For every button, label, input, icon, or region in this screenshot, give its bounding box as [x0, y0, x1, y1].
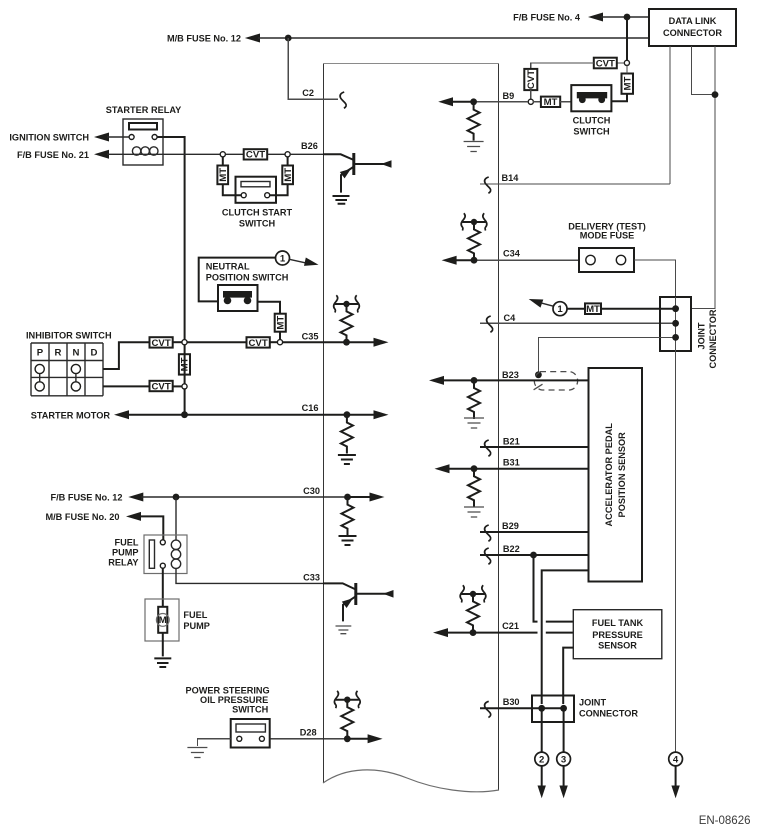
node C21 pull-up junction: [470, 629, 477, 636]
label C16: [302, 403, 319, 413]
ground C16 pull-down: [338, 455, 356, 464]
ground fuel pump: [154, 658, 171, 667]
resistor C35 pull-up: [341, 304, 353, 342]
wire marker 3 exit arrow: [559, 766, 567, 798]
inhibitor switch S4 grid: [31, 343, 103, 396]
label FUEL PUMP RELAY: [108, 537, 139, 567]
svg-text:4: 4: [673, 754, 679, 765]
svg-text:STARTER RELAY: STARTER RELAY: [106, 105, 182, 115]
joint connector J2 (bottom): [532, 696, 574, 723]
arrow from marker 1 to ECM: [289, 258, 318, 266]
wire F/B FUSE No.12 to C30: [128, 493, 323, 502]
wire feed line pin to second CVT tag: [187, 341, 246, 343]
label B29: [502, 521, 519, 531]
label F/B FUSE No. 12: [51, 493, 123, 503]
svg-text:M/B FUSE No. 12: M/B FUSE No. 12: [167, 34, 241, 44]
ground C30 pull-down: [339, 536, 357, 545]
fuel tank pressure sensor U3: [573, 610, 662, 659]
resistor B31 pull-down: [468, 469, 480, 507]
wire C30 branch down to relay coil: [175, 497, 177, 540]
label NEUTRAL POSITION SWITCH: [206, 261, 289, 282]
connector tag MT (NPS): [275, 314, 287, 332]
clutch start switch S2: [236, 177, 277, 203]
svg-text:CVT: CVT: [152, 338, 171, 349]
svg-text:F/B FUSE No. 4: F/B FUSE No. 4: [513, 13, 581, 23]
wire break squiggle at B14: [485, 177, 491, 193]
svg-text:CLUTCH: CLUTCH: [573, 116, 611, 126]
wire relay coil to B26 chain: [163, 153, 220, 155]
svg-text:M/B FUSE No. 20: M/B FUSE No. 20: [45, 512, 119, 522]
svg-text:CONNECTOR: CONNECTOR: [579, 709, 638, 719]
pin open circle left of CVT tag on B26 wire: [220, 152, 225, 157]
resistor D28 pull-up: [341, 700, 353, 738]
wire clutch switch right side up through MT: [611, 94, 627, 102]
wire fuse to right joint connector: [634, 260, 676, 305]
pin open circle right of CVT tag on B26 wire: [267, 152, 290, 157]
wire break squiggle at B22: [485, 548, 491, 564]
clutch switch S1: [571, 85, 611, 111]
label EN-08626: [699, 815, 751, 827]
wire relay contact to vertical feed line: [157, 137, 185, 415]
ground B26 transistor: [333, 196, 350, 204]
wire B29 to APS: [480, 531, 589, 533]
connector tag CVT (C35 line, left): [150, 337, 173, 349]
label B30: [503, 697, 520, 707]
svg-text:STARTER MOTOR: STARTER MOTOR: [31, 411, 111, 421]
svg-text:PUMP: PUMP: [183, 621, 210, 631]
label B23: [502, 370, 519, 380]
svg-text:1: 1: [280, 253, 286, 264]
svg-text:B23: B23: [502, 370, 519, 380]
pin open circle on C35 wire: [277, 340, 282, 345]
label JOINT CONNECTOR (bottom): [579, 698, 638, 719]
label M/B FUSE No. 12: [167, 34, 241, 44]
wire junction down to C2 pin: [288, 38, 338, 99]
wire break squiggle at B29: [485, 525, 491, 541]
wire break squiggle at B21: [485, 440, 491, 456]
resistor C30 pull-down: [342, 498, 354, 536]
fuel pump M1: [145, 599, 179, 641]
svg-text:EN-08626: EN-08626: [699, 815, 751, 827]
fuel pump relay K2: [144, 535, 187, 574]
wire marker 4 exit arrow: [671, 766, 679, 798]
connector tag CVT (horizontal, top): [594, 58, 624, 70]
wire relay coil to C33: [176, 569, 323, 584]
node B9 pull-down junction: [470, 98, 477, 105]
wire vertical CVT tag down to B9 pin circle: [530, 90, 532, 99]
label B14: [502, 173, 520, 183]
svg-text:MT: MT: [180, 357, 191, 371]
svg-text:C16: C16: [302, 403, 319, 413]
label D28: [300, 728, 317, 738]
label C21: [502, 621, 519, 631]
svg-text:CVT: CVT: [152, 381, 171, 392]
connector tag CVT (vertical): [524, 69, 537, 90]
svg-text:B30: B30: [503, 697, 520, 707]
node C16 pull-down junction: [344, 411, 351, 418]
wire DLC pin3 down to right joint connector: [691, 46, 715, 309]
svg-text:R: R: [55, 348, 62, 359]
ECM main box (bus) top edge: [323, 63, 499, 65]
neutral position switch S3: [218, 285, 258, 311]
wire C21 terminator arrow and to FTPS: [433, 628, 573, 637]
resistor C34 pull-up: [468, 222, 480, 260]
wire marker 2 exit arrow: [538, 766, 546, 798]
wire B22 to APS: [480, 554, 589, 556]
wire MT tag up to CVT circle: [626, 66, 628, 74]
svg-text:3: 3: [561, 754, 566, 765]
svg-text:NEUTRAL: NEUTRAL: [206, 261, 250, 271]
svg-text:FUEL: FUEL: [115, 537, 139, 547]
label STARTER RELAY: [106, 105, 182, 115]
continuation marker circle 1 (NPS): [276, 251, 290, 265]
svg-text:B21: B21: [503, 436, 520, 446]
label B9: [503, 91, 515, 101]
svg-text:MT: MT: [218, 168, 229, 182]
svg-text:C33: C33: [303, 573, 320, 583]
data link connector U1: [649, 9, 736, 46]
ground PS switch: [187, 748, 207, 758]
connector tag CVT (row3): [150, 381, 173, 393]
label B26: [301, 141, 318, 151]
resistor C21 pull-up: [467, 594, 479, 632]
wire NPS pin2 down through MT tag to C35: [258, 302, 281, 314]
svg-text:POSITION SWITCH: POSITION SWITCH: [206, 272, 289, 282]
label INHIBITOR SWITCH: [26, 330, 112, 340]
wire M/B FUSE No.12 to DATA LINK CONNECTOR: [245, 34, 649, 43]
wire B21 to APS: [480, 446, 589, 448]
shield dashed loop around B23 wire: [534, 372, 578, 390]
wire APS lower pin to bottom joint connector: [542, 570, 589, 704]
node B22 branch junction: [530, 552, 537, 559]
wire break squiggle at B30: [485, 701, 491, 717]
svg-text:D: D: [91, 348, 98, 359]
ground B31 pull-down: [464, 507, 484, 517]
ground B23 pull-down: [464, 418, 484, 428]
node C30 branch to fuel pump relay: [173, 494, 180, 501]
svg-text:C21: C21: [502, 621, 519, 631]
node B23 pull-down junction: [471, 377, 478, 384]
label M/B FUSE No. 20: [45, 512, 119, 522]
wire starter motor C16: [114, 410, 347, 419]
label C35: [302, 332, 319, 342]
svg-text:C30: C30: [303, 486, 320, 496]
node joint pins: [672, 305, 679, 340]
wire second CVT tag to pin circle: [270, 341, 278, 343]
wire through joint connector down to marker 4: [675, 297, 677, 752]
wire joint pin to marker 2: [541, 708, 543, 752]
wire B22 branch down to fuel tank pressure sensor: [534, 555, 574, 622]
continuation marker circle 2: [535, 752, 549, 766]
wire B14 to DLC pin1: [480, 183, 670, 185]
wire B23 terminator arrow and to APS: [429, 376, 589, 385]
accelerator pedal position sensor U2: [589, 368, 643, 582]
svg-text:CVT: CVT: [249, 338, 268, 349]
label B31: [503, 457, 520, 467]
wire NPS pin1 to continuation marker 1: [199, 258, 276, 302]
svg-text:MT: MT: [544, 97, 558, 108]
wire F/B FUSE No.4 to DATA LINK CONNECTOR: [588, 13, 649, 22]
connector tag MT left (clutch start): [217, 157, 241, 195]
node D28 pull-up junction: [344, 735, 351, 742]
wire PS switch to ground: [197, 739, 230, 746]
transistor Q1 at B26: [323, 153, 392, 193]
svg-text:RELAY: RELAY: [108, 557, 138, 567]
wire B9 from ECM to circle: [499, 101, 528, 103]
svg-text:B14: B14: [502, 173, 520, 183]
connector tag MT (C4 line): [567, 303, 674, 315]
svg-text:B26: B26: [301, 141, 318, 151]
svg-text:DATA LINK: DATA LINK: [669, 16, 717, 26]
ground B9 pull-down: [464, 142, 484, 152]
label POWER STEERING OIL PRESSURE SWITCH: [185, 686, 269, 715]
wire B30 to bottom joint connector: [480, 707, 564, 709]
wire ignition switch arrow to relay contact: [94, 133, 129, 142]
svg-text:MT: MT: [586, 304, 600, 315]
pin open circle on feed line (row3): [182, 384, 187, 389]
svg-text:CONNECTOR: CONNECTOR: [663, 28, 722, 38]
node C34 pull-up junction: [471, 257, 478, 264]
svg-text:B29: B29: [502, 521, 519, 531]
node B31 pull-down junction: [471, 465, 478, 472]
svg-text:SWITCH: SWITCH: [239, 219, 276, 229]
wire break squiggle at C2: [340, 92, 346, 108]
svg-text:MT: MT: [622, 77, 633, 91]
svg-text:PUMP: PUMP: [112, 547, 139, 557]
svg-text:P: P: [37, 348, 44, 359]
wire CVT tag to feed line pin: [173, 341, 182, 343]
connector tag CVT (C35 line, right): [247, 337, 270, 349]
wire C34 terminator arrow: [442, 256, 499, 265]
label C2: [302, 88, 314, 98]
joint connector J1 (right): [660, 297, 691, 351]
resistor B23 pull-down: [468, 381, 480, 419]
ECM main box (bus) left edge: [323, 64, 325, 783]
svg-text:FUEL TANK: FUEL TANK: [592, 618, 644, 628]
wire C34 to delivery mode fuse: [499, 259, 579, 261]
wire row3 CVT to feed line pin: [173, 385, 182, 387]
wire joint pin to marker 3: [563, 708, 565, 752]
wire F/B FUSE No.21 arrow to relay coil: [94, 150, 123, 159]
svg-text:PRESSURE: PRESSURE: [592, 630, 643, 640]
wire inhibitor row3 to CVT tag: [103, 385, 149, 387]
wire C4 to right joint connector: [480, 322, 674, 324]
label C4: [504, 313, 517, 323]
delivery (test) mode fuse F1: [579, 248, 634, 272]
label B22: [503, 544, 520, 554]
label CLUTCH SWITCH: [573, 116, 611, 137]
svg-text:JOINT: JOINT: [697, 322, 707, 349]
pin open circle on B9 wire: [528, 99, 533, 104]
svg-text:CLUTCH START: CLUTCH START: [222, 208, 293, 218]
node feed line to C16: [181, 411, 188, 418]
svg-text:C35: C35: [302, 332, 319, 342]
shield node above D28: [334, 691, 360, 708]
svg-text:SENSOR: SENSOR: [598, 641, 637, 651]
wire fuel pump to ground: [162, 633, 164, 657]
wire DLC pin2 down joining pin3 line: [692, 46, 716, 95]
wire B9 inside ECM with terminator arrow: [438, 97, 499, 106]
wire C30 inside ECM with terminator arrow: [323, 493, 385, 502]
wire inhibitor row2 to CVT tag (C35 line): [103, 342, 149, 369]
svg-text:MODE FUSE: MODE FUSE: [580, 230, 635, 240]
svg-text:IGNITION SWITCH: IGNITION SWITCH: [9, 133, 89, 143]
label B21: [503, 436, 520, 446]
wire B31 terminator arrow and to APS: [435, 464, 589, 473]
wire DLC pin1 down to B14 elbow: [669, 46, 671, 184]
connector tag MT (feed line): [179, 354, 191, 374]
wire CVT pull-up from F/B FUSE No.4: [626, 17, 628, 60]
label CLUTCH START SWITCH: [222, 208, 293, 229]
svg-text:2: 2: [539, 754, 544, 765]
svg-text:C2: C2: [302, 88, 314, 98]
connector tag MT (horizontal) on B9 wire: [533, 97, 571, 109]
ECM main box (bus) right edge: [498, 64, 500, 790]
node junction pin2/pin3: [712, 91, 719, 98]
svg-text:CONNECTOR: CONNECTOR: [708, 309, 718, 368]
wire relay contact down to fuel pump: [162, 568, 164, 607]
svg-text:B31: B31: [503, 457, 520, 467]
svg-text:D28: D28: [300, 728, 317, 738]
wire FTPS lower pin to bottom joint connector: [563, 648, 573, 704]
svg-text:OIL PRESSURE: OIL PRESSURE: [200, 695, 268, 705]
wire D28 from PS switch into ECM: [270, 738, 348, 740]
shield node above C35: [334, 295, 360, 312]
pin open circle on feed line (C35): [182, 340, 187, 345]
wire D28 terminator arrow: [347, 734, 382, 743]
svg-text:JOINT: JOINT: [579, 698, 606, 708]
wire CVT tag to vertical CVT tag: [531, 63, 594, 69]
connector tag CVT on B26 wire: [226, 149, 268, 161]
svg-text:B9: B9: [503, 91, 515, 101]
wire break squiggle at C4: [487, 316, 493, 332]
svg-text:F/B FUSE No. 21: F/B FUSE No. 21: [17, 150, 89, 160]
svg-text:B22: B22: [503, 544, 520, 554]
svg-text:POWER STEERING: POWER STEERING: [185, 686, 269, 696]
label STARTER MOTOR: [31, 411, 111, 421]
resistor C16 pull-down: [341, 416, 353, 454]
wire B26 to ECM: [290, 153, 323, 155]
label F/B FUSE No. 21: [17, 150, 89, 160]
shield node above C34: [461, 213, 487, 230]
wire M/B FUSE No.20 to fuel pump relay contact: [126, 512, 163, 540]
svg-text:CVT: CVT: [526, 70, 537, 89]
continuation marker circle 4: [669, 752, 683, 766]
node bottom joint pins: [538, 705, 567, 712]
svg-text:C34: C34: [503, 249, 521, 259]
node C35 pull-up junction: [343, 339, 350, 346]
label C34: [503, 249, 521, 259]
label IGNITION SWITCH: [9, 133, 89, 143]
ECM main box (bus) wavy bottom edge: [323, 770, 499, 792]
resistor B9 pull-down: [468, 103, 480, 141]
ground C33 transistor: [336, 626, 352, 634]
label C33: [303, 573, 320, 583]
svg-text:MT: MT: [275, 316, 286, 330]
svg-text:N: N: [73, 348, 80, 359]
starter relay K1: [123, 119, 163, 165]
connector tag MT right (clutch start): [270, 157, 294, 195]
svg-text:M: M: [159, 615, 167, 626]
label F/B FUSE No. 4: [513, 13, 581, 23]
svg-text:C4: C4: [504, 313, 517, 323]
connector tag MT (vertical, clutch): [622, 74, 634, 94]
svg-text:SWITCH: SWITCH: [573, 127, 610, 137]
label JOINT CONNECTOR (right, vertical): [697, 309, 719, 368]
node B23 shield drain dot: [535, 371, 542, 378]
node C30 pull-down junction: [344, 494, 351, 501]
svg-text:INHIBITOR SWITCH: INHIBITOR SWITCH: [26, 330, 112, 340]
wire MT tag to C35 pin circle: [279, 332, 281, 340]
svg-text:SWITCH: SWITCH: [232, 705, 269, 715]
label FUEL PUMP: [183, 610, 210, 631]
continuation marker circle 1 (C4 line): [553, 302, 567, 316]
transistor Q2 at C33: [323, 583, 394, 621]
svg-text:1: 1: [557, 304, 563, 315]
svg-text:ACCELERATOR PEDAL: ACCELERATOR PEDAL: [604, 423, 614, 527]
node junction on F/B FUSE No.4 line: [624, 14, 631, 21]
shield node above C21: [460, 585, 486, 602]
label C30: [303, 486, 320, 496]
svg-text:CVT: CVT: [246, 150, 265, 161]
continuation marker circle 3: [557, 752, 571, 766]
svg-text:CVT: CVT: [596, 58, 615, 69]
svg-text:POSITION SENSOR: POSITION SENSOR: [617, 432, 627, 518]
label DELIVERY (TEST) MODE FUSE: [568, 222, 646, 241]
wire C16 inside ECM with terminator arrow: [347, 410, 389, 419]
svg-text:MT: MT: [283, 168, 294, 182]
wire joint pin3 to B23 shield drain: [538, 337, 674, 372]
svg-text:F/B FUSE No. 12: F/B FUSE No. 12: [51, 493, 123, 503]
arrow from marker 1 (C4 line): [529, 299, 554, 308]
node junction on M/B FUSE No.12 line: [285, 35, 292, 42]
svg-text:FUEL: FUEL: [183, 610, 207, 620]
pin open circle at CVT junction: [624, 60, 629, 65]
wire C35 into ECM with terminator arrow: [283, 338, 389, 347]
power steering oil pressure switch S5: [231, 719, 270, 748]
